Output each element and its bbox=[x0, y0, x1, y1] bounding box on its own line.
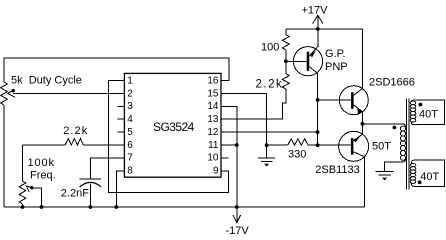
svg-text:2.2k: 2.2k bbox=[63, 125, 88, 137]
svg-text:6: 6 bbox=[127, 140, 133, 151]
svg-text:11: 11 bbox=[208, 140, 219, 151]
svg-text:2SB1133: 2SB1133 bbox=[315, 164, 359, 176]
svg-text:3: 3 bbox=[127, 101, 133, 112]
capacitor C1 2.2nF bbox=[61, 158, 125, 207]
transformer secondary top 40T bbox=[410, 100, 444, 125]
wire pin 12 to driver node bbox=[221, 131, 318, 133]
transformer core bbox=[405, 99, 407, 190]
svg-text:PNP: PNP bbox=[325, 61, 348, 73]
svg-text:2.2k: 2.2k bbox=[256, 78, 284, 90]
svg-text:1: 1 bbox=[127, 75, 133, 86]
wire pin 15 down to ground bbox=[221, 93, 267, 157]
junction Q2 emitter / Q3 emitter / transformer bbox=[361, 122, 365, 126]
svg-text:15: 15 bbox=[207, 88, 219, 99]
svg-text:40T: 40T bbox=[420, 171, 439, 183]
potentiometer R1 5k (left vertical zigzag) bbox=[1, 82, 8, 105]
resistor R6 330 bbox=[267, 139, 351, 161]
junction dot pin 12 node bbox=[316, 130, 320, 134]
svg-text:14: 14 bbox=[207, 101, 219, 112]
junction 100/2.2k/base bbox=[284, 59, 288, 63]
ground (pin15 / 330) bbox=[258, 158, 275, 167]
svg-text:8: 8 bbox=[127, 166, 133, 177]
pin 4 stub bbox=[117, 118, 124, 120]
svg-text:13: 13 bbox=[207, 114, 219, 125]
wire pin 1 to pin 9 loop bbox=[109, 81, 229, 193]
resistor R5 2.2k (vertical) bbox=[256, 61, 290, 90]
junction dot 100k wiper on rail bbox=[40, 205, 44, 209]
junction dot R6 left / ground branch bbox=[265, 143, 269, 147]
pin 10 stub bbox=[221, 157, 229, 159]
svg-text:2: 2 bbox=[127, 88, 133, 99]
svg-text:Freq.: Freq. bbox=[30, 170, 56, 182]
+17V rail bbox=[286, 28, 363, 30]
junction dot pin 11 / pin 14 vertical bbox=[235, 143, 239, 147]
+17V arrow bbox=[302, 4, 329, 29]
junction dot R6 right / Q3 base node bbox=[316, 143, 320, 147]
svg-text:40T: 40T bbox=[419, 108, 438, 120]
pin 3 stub bbox=[117, 105, 124, 107]
svg-text:16: 16 bbox=[207, 75, 219, 86]
transistor Q3 2SB1133 (PNP) bbox=[315, 131, 368, 207]
wire emitter junction to transformer primary bbox=[362, 123, 402, 125]
5k wiper arrow to pin 2 bbox=[8, 89, 125, 97]
svg-text:330: 330 bbox=[288, 149, 306, 161]
potentiometer R3 100k Freq (vertical zigzag) bbox=[19, 157, 55, 207]
svg-text:50T: 50T bbox=[372, 140, 391, 152]
svg-text:5k Duty Cycle: 5k Duty Cycle bbox=[11, 74, 82, 86]
svg-text:2.2nF: 2.2nF bbox=[61, 188, 89, 200]
junction dot -17V node on rail bbox=[235, 205, 239, 209]
svg-text:10: 10 bbox=[207, 153, 219, 164]
-17V arrow bbox=[226, 207, 250, 237]
transistor Q2 2SD1666 (NPN) bbox=[318, 29, 415, 134]
resistor R2 2.2k (horizontal, pin 6) bbox=[23, 125, 125, 145]
transformer T1 primary 50T bbox=[372, 124, 406, 172]
svg-text:SG3524: SG3524 bbox=[153, 120, 195, 134]
wire pin 8 down to rail bbox=[116, 171, 124, 207]
svg-text:100: 100 bbox=[261, 41, 279, 53]
wire top-left from 5k pot top to pin 16 riser bbox=[4, 58, 229, 82]
svg-text:7: 7 bbox=[127, 153, 133, 164]
IC U1 SG3524 box bbox=[124, 73, 221, 177]
svg-text:100k: 100k bbox=[28, 157, 55, 169]
svg-text:12: 12 bbox=[207, 127, 219, 138]
svg-text:+17V: +17V bbox=[302, 4, 329, 16]
svg-text:4: 4 bbox=[127, 114, 133, 125]
svg-text:5: 5 bbox=[127, 127, 133, 138]
junction dot C1 on rail bbox=[89, 205, 93, 209]
ground (transformer primary) bbox=[376, 172, 394, 181]
wire pin 13 to 2.2k bottom bbox=[221, 89, 286, 119]
wire left rail below 5k pot bbox=[3, 105, 5, 207]
bottom rail -17V bbox=[4, 206, 364, 208]
junction dot 100k pot bottom on rail bbox=[21, 205, 25, 209]
svg-text:G.P.: G.P. bbox=[325, 48, 346, 60]
svg-text:9: 9 bbox=[213, 166, 219, 177]
wire 100k pot top to pin6 node bbox=[22, 145, 24, 181]
junction dot pin 8 on rail bbox=[114, 205, 118, 209]
transistor Q1 G.P. PNP bbox=[286, 29, 348, 145]
resistor R4 100 (vertical) bbox=[261, 29, 289, 61]
wire pin 11 bbox=[221, 144, 237, 146]
svg-text:-17V: -17V bbox=[226, 225, 250, 237]
wire pin 14 down to pin 11 and -17V rail bbox=[221, 106, 237, 207]
transformer secondary bottom 40T bbox=[410, 160, 444, 186]
pin 5 stub bbox=[117, 131, 124, 133]
junction dot +17V rail bbox=[316, 27, 320, 31]
junction PNP collector / Q2 base bbox=[316, 98, 320, 102]
100k wiper arrow bbox=[26, 186, 41, 207]
svg-text:2SD1666: 2SD1666 bbox=[369, 77, 415, 89]
